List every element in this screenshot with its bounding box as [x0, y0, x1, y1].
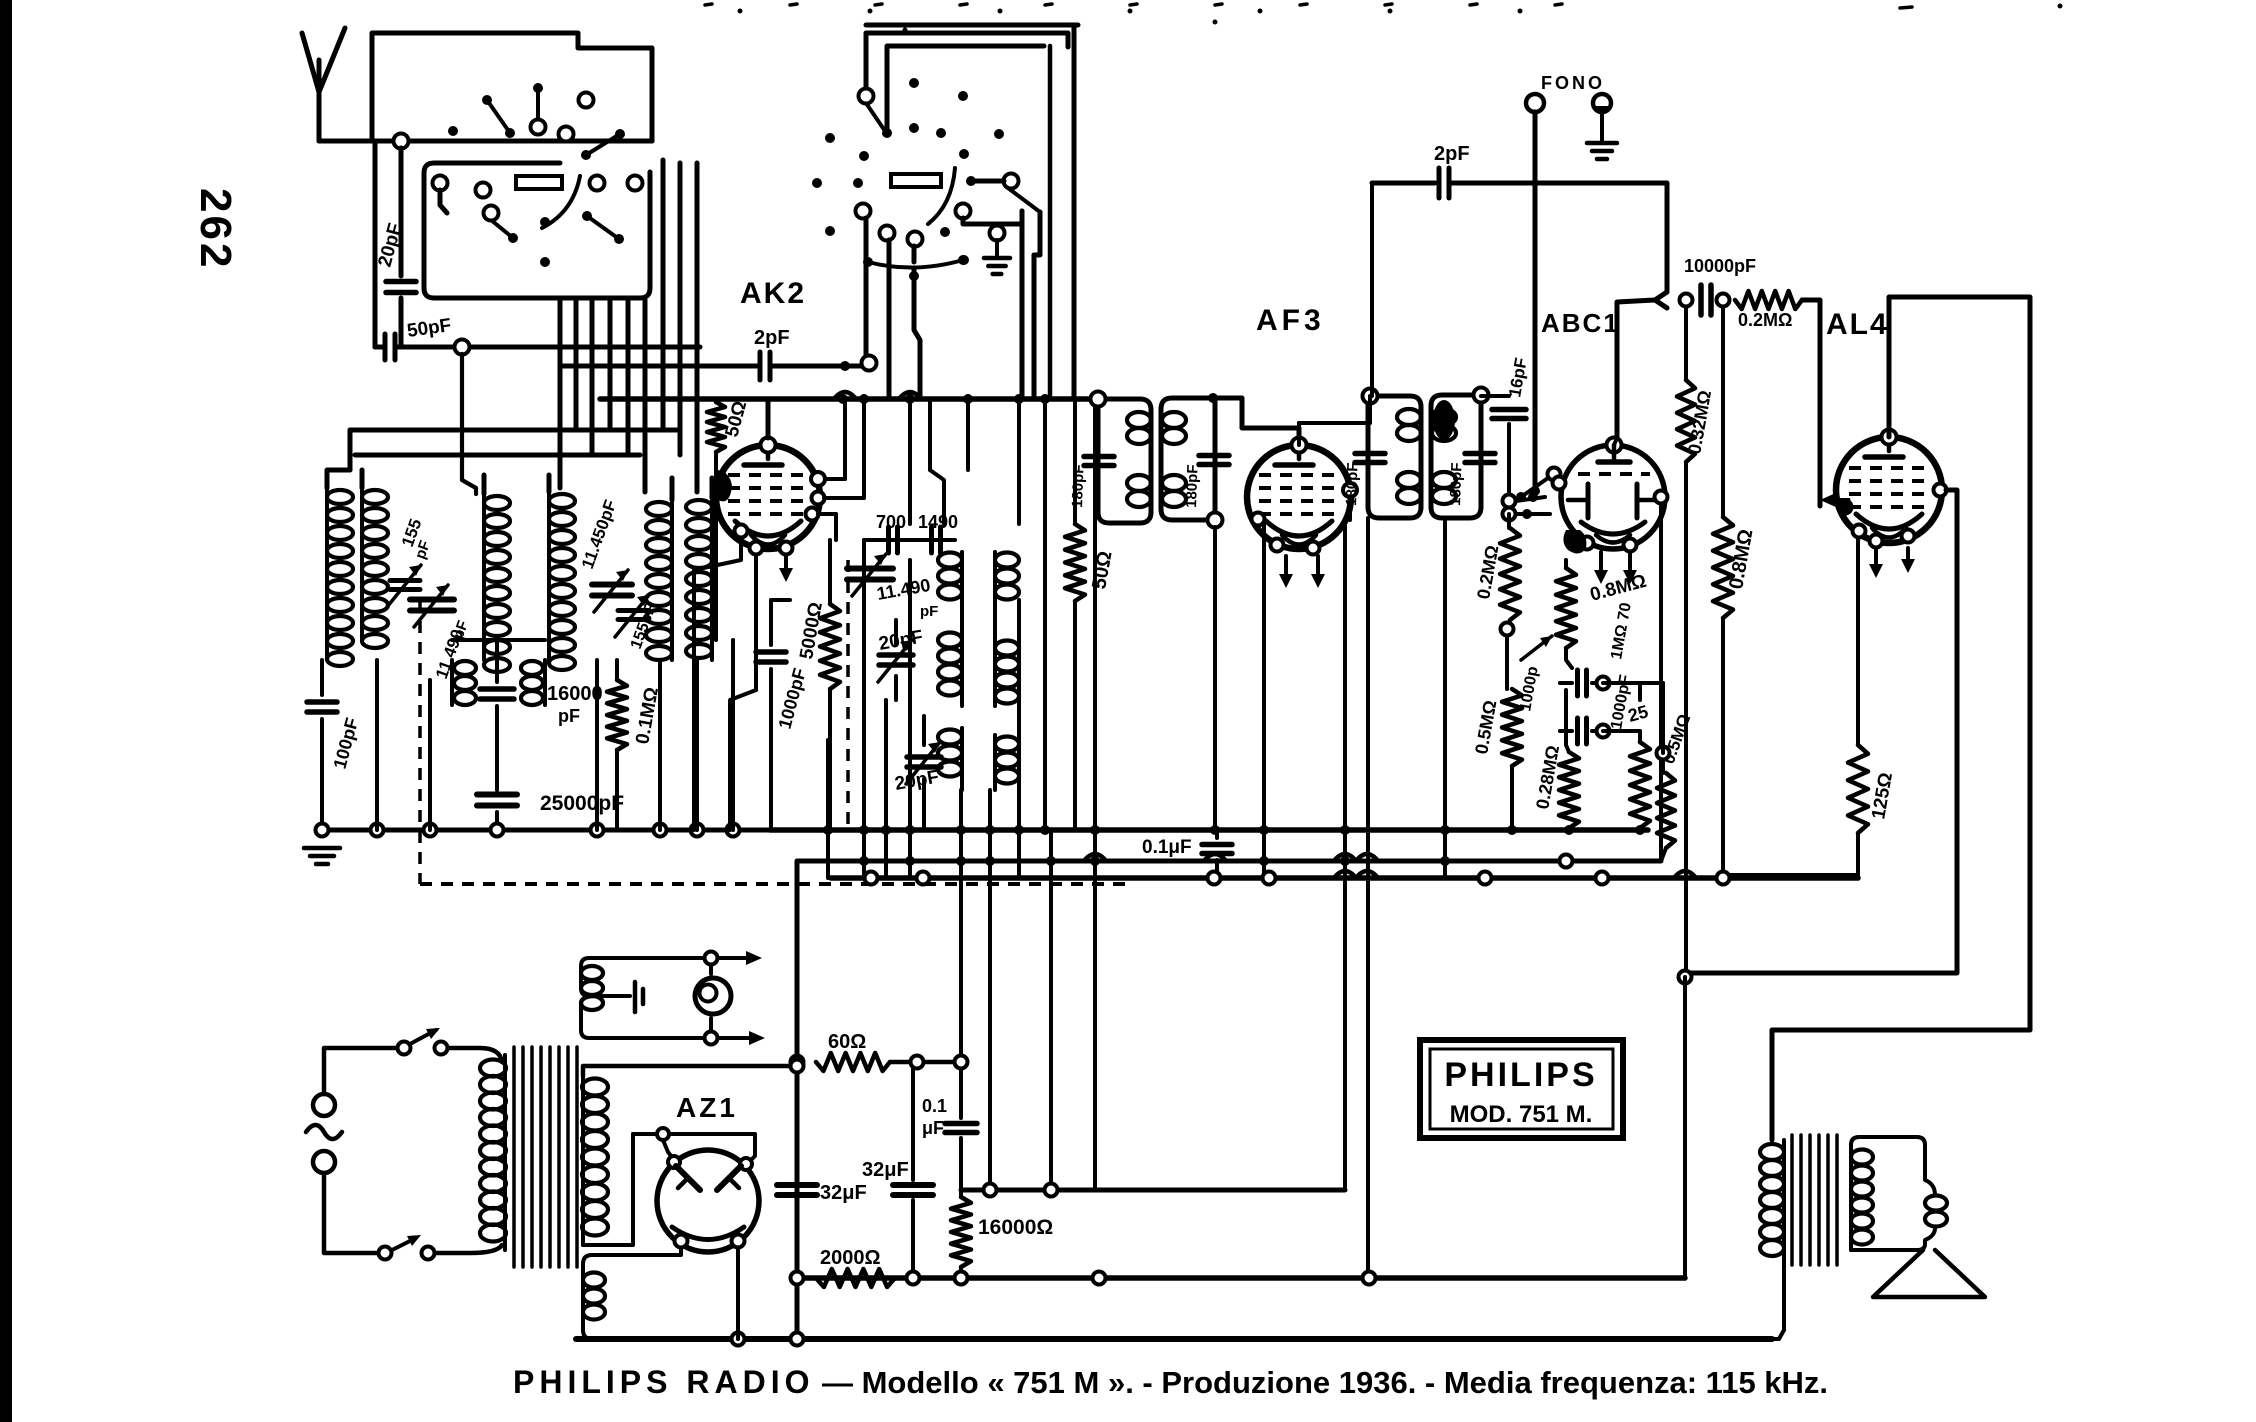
node [1474, 388, 1489, 403]
node AF3 top [1292, 438, 1307, 453]
tube AZ1 [657, 1150, 759, 1252]
ABC1 diode plate L [1586, 484, 1591, 518]
trimmer 20pF a [879, 652, 913, 658]
wire switch comb [590, 300, 595, 455]
node [1440, 825, 1450, 835]
capacitor 1490pF [929, 527, 934, 553]
node [1596, 872, 1609, 885]
wire comb bus g [1017, 600, 1021, 878]
switch contact dot [958, 91, 968, 101]
switch contact dot [966, 176, 976, 186]
switch contact [476, 183, 491, 198]
svg-text:0.8MΩ: 0.8MΩ [1725, 527, 1757, 590]
svg-text:0.2MΩ: 0.2MΩ [1473, 544, 1502, 601]
switch slider [516, 176, 562, 189]
node [956, 825, 966, 835]
capacitor 50pF [383, 334, 388, 360]
wire osc [864, 538, 955, 542]
wire mid verticals [966, 399, 970, 470]
node [732, 1235, 745, 1248]
wire mid vertical4 [1093, 399, 1097, 878]
svg-text:16pF: 16pF [1505, 356, 1531, 398]
dial box inner [887, 46, 1044, 132]
node [1679, 971, 1692, 984]
node [1259, 825, 1269, 835]
heater winding [592, 1248, 681, 1255]
wire [1772, 1330, 1784, 1339]
wire AF3 cath [1262, 525, 1266, 878]
speaker cone [1873, 1250, 1985, 1297]
IFT2 coil left [1397, 409, 1421, 425]
svg-text:0.1μF: 0.1μF [1142, 837, 1192, 858]
ground small [995, 240, 999, 258]
switch contact [856, 204, 871, 219]
switch contact dot [959, 149, 969, 159]
node [1597, 677, 1610, 690]
capacitor 16000pF [495, 640, 499, 682]
svg-text:180pF: 180pF [1343, 462, 1362, 506]
node [1597, 725, 1610, 738]
wire left power vert [795, 861, 800, 1339]
svg-text:16000: 16000 [547, 683, 603, 705]
coil osc3a [960, 728, 964, 790]
bus B2 y861 [798, 859, 1661, 864]
svg-text:20pF: 20pF [877, 627, 924, 655]
mains plug terminal [313, 1094, 335, 1116]
dashed boundary vert [418, 600, 422, 884]
wire AL4 plate loop [1772, 297, 2030, 1140]
wire IFT1 to AF3 [1213, 398, 1299, 438]
resistor 0.5MOhm b [1661, 760, 1665, 773]
node [907, 1272, 920, 1285]
node [1046, 856, 1056, 866]
switch contact dot [909, 78, 919, 88]
node antenna junction [394, 134, 409, 149]
variable capacitor 11.490pF osc [847, 566, 893, 572]
mains plug terminal b [313, 1151, 335, 1173]
wire cluster-down c [912, 246, 917, 262]
node [654, 824, 667, 837]
node [591, 824, 604, 837]
svg-text:125Ω: 125Ω [1868, 771, 1897, 821]
wire [375, 660, 379, 830]
bus y1278 [797, 1275, 1685, 1281]
wire [960, 608, 964, 630]
wire [452, 638, 545, 642]
capacitor 10000pF [1698, 285, 1704, 315]
dial wiper arc [928, 168, 955, 224]
node [985, 856, 995, 866]
svg-text:AK2: AK2 [740, 277, 806, 310]
wire 50pF line [396, 345, 700, 350]
wire [1603, 681, 1663, 685]
pilot arrow bottom [718, 1036, 755, 1040]
node [691, 824, 704, 837]
wire [462, 354, 476, 494]
node [1503, 508, 1516, 521]
wire [771, 598, 790, 602]
wire [495, 760, 499, 790]
coil osc2a [960, 630, 964, 706]
switch contact [590, 176, 605, 191]
node AK2 pin [735, 525, 748, 538]
wire switch comb [643, 300, 648, 492]
node [1014, 394, 1024, 404]
scan blob AK2 left edge [714, 470, 732, 501]
node [1208, 872, 1221, 885]
wire IFT2 tops [1297, 423, 1301, 445]
trimmer capacitor 155pF [390, 578, 420, 583]
wire comb bus b [862, 540, 866, 878]
switch box B outline [424, 163, 650, 298]
svg-text:AF3: AF3 [1256, 304, 1325, 337]
wire switch comb [558, 300, 563, 488]
pilot box [581, 958, 711, 996]
wire AL4 screen [1685, 490, 1957, 973]
node [838, 394, 848, 404]
svg-text:700: 700 [876, 512, 906, 532]
wire mains top [324, 1048, 398, 1094]
node [740, 1158, 752, 1170]
node AK2 g2 [812, 492, 825, 505]
variable capacitor 11.490pF [410, 597, 454, 603]
node [1014, 825, 1024, 835]
svg-text:10000pF: 10000pF [1684, 256, 1756, 276]
PHILIPS model box [1420, 1040, 1623, 1138]
svg-text:262: 262 [191, 188, 240, 270]
switch contact dot [853, 178, 863, 188]
node AK2 pin [780, 542, 793, 555]
scan blob AL4 left [1837, 498, 1852, 516]
switch wire [440, 190, 447, 213]
node [1680, 294, 1693, 307]
node [1091, 392, 1106, 407]
node [455, 340, 470, 355]
switch lever [866, 103, 885, 131]
grid arrow AL4 [1820, 492, 1838, 508]
IFT1 coil left [1127, 412, 1151, 428]
IFT2 left box [1368, 396, 1421, 518]
svg-text:1000pF: 1000pF [775, 666, 810, 731]
wire AZ1 plate left [633, 1132, 657, 1136]
bus main top y399 [600, 396, 1098, 402]
capacitor 2pF [758, 352, 763, 380]
node [1528, 492, 1538, 502]
wire fono gnd [1600, 112, 1604, 141]
IFT1 coil right [1162, 412, 1186, 428]
trimmer arrow [1521, 636, 1552, 660]
node ABC1 left pin2 [1553, 477, 1566, 490]
svg-text:2pF: 2pF [754, 327, 790, 349]
svg-text:MOD. 751 M.: MOD. 751 M. [1450, 1101, 1593, 1128]
svg-text:180pF: 180pF [1069, 464, 1088, 508]
wire comb bus f [988, 790, 992, 1190]
wire switch comb [574, 300, 579, 430]
wire AK2 plate right [825, 477, 845, 481]
resistor 0.2MOhm b [1507, 514, 1511, 528]
wire AL4 cath [1856, 538, 1860, 745]
wire y1190 [961, 1188, 1345, 1193]
switch contact dot [909, 271, 919, 281]
svg-text:0.1: 0.1 [922, 1096, 947, 1116]
IFT2 coil right [1432, 409, 1456, 425]
node [1045, 1184, 1058, 1197]
capacitor 0.1uF bus [1215, 830, 1219, 838]
wire AL4 grid wire [1802, 300, 1820, 506]
capacitor 32uF right [911, 1069, 915, 1180]
wire [1603, 729, 1640, 733]
node [1717, 294, 1730, 307]
capacitor 180pF d [1465, 451, 1495, 457]
svg-text:μF: μF [922, 1118, 944, 1138]
page left black margin bar [0, 0, 12, 1422]
wire 2pF left vert [1370, 183, 1374, 396]
node AF3 pin [1271, 539, 1284, 552]
svg-text:60Ω: 60Ω [828, 1031, 866, 1053]
capacitor coupling b [1560, 729, 1572, 733]
node [963, 394, 973, 404]
switch lever S2 [536, 88, 540, 118]
node [1363, 1272, 1376, 1285]
wire AZ1 cath down [736, 1248, 740, 1339]
wire pilot lamp leads [709, 965, 713, 974]
ABC1 diode plate R [1635, 484, 1640, 518]
wire osc vertical [908, 399, 912, 524]
wire IFT2 right down [1443, 518, 1447, 878]
bus bottom y1339 [576, 1336, 1772, 1342]
node [985, 825, 995, 835]
capacitor 100pF [320, 660, 324, 695]
node AF3 pin [1307, 542, 1320, 555]
tube AF3 [1247, 445, 1351, 549]
wire [1505, 636, 1509, 689]
wire AK2 pin down [754, 555, 758, 690]
coil osc2b [993, 640, 997, 706]
wire 2pF top line [1372, 181, 1435, 186]
capacitor 16pF [1481, 394, 1509, 398]
wire [348, 430, 353, 470]
node [705, 1032, 718, 1045]
wire osc links [894, 620, 898, 644]
output primary [1782, 1140, 1786, 1330]
node [1093, 1272, 1106, 1285]
node [791, 1060, 804, 1073]
switch contact [559, 127, 574, 142]
wire junction bend [1655, 292, 1667, 308]
switch contact dot [909, 123, 919, 133]
wire comb bus d [908, 560, 912, 878]
resistor 0.32MOhm [1684, 307, 1688, 380]
switch contact [990, 226, 1005, 241]
wire [558, 300, 562, 366]
switch contact dot [448, 126, 458, 136]
svg-text:1MΩ 70: 1MΩ 70 [1608, 601, 1635, 660]
cathode arrow AL4 a [1874, 548, 1878, 570]
wire secondary bottom [583, 1134, 633, 1245]
switch wiper arc [542, 176, 580, 228]
node AF3 pin [1252, 513, 1265, 526]
node AL4 pin [1870, 535, 1883, 548]
node [1479, 872, 1492, 885]
svg-text:0.2MΩ: 0.2MΩ [1738, 310, 1792, 330]
bus B3 y878 [831, 875, 1858, 881]
wire fono right run [1535, 183, 1667, 292]
transformer secondary coil [581, 1076, 585, 1245]
switch contact dot [994, 129, 1004, 139]
switch contact [908, 232, 923, 247]
coil L4 [547, 492, 551, 660]
resistor 125 Ohm [1848, 745, 1868, 833]
terminal FONO left [1526, 94, 1544, 112]
node [1259, 856, 1269, 866]
dashed boundary line [420, 882, 1130, 886]
resistor 0.28MOhm [1564, 690, 1568, 745]
IFT1 right box [1161, 398, 1215, 520]
capacitor 1000pF osc [769, 600, 773, 645]
switch contact dot [859, 151, 869, 161]
node [727, 824, 740, 837]
svg-text:100pF: 100pF [330, 716, 363, 771]
node AL4 plate pin [1934, 484, 1947, 497]
node [955, 1272, 968, 1285]
wire [963, 211, 1022, 224]
node AK2 pin [750, 542, 763, 555]
output secondary [1849, 1145, 1853, 1250]
coil L6 [710, 498, 714, 660]
wire AK2 left [694, 538, 741, 830]
trimmer 20pF b [907, 754, 941, 760]
node [905, 856, 915, 866]
wire [1034, 212, 1040, 255]
ABC1 grid dash [1578, 472, 1650, 476]
node [859, 394, 869, 404]
svg-text:2000Ω: 2000Ω [820, 1247, 881, 1269]
svg-text:pF: pF [558, 706, 580, 726]
switch contact dot [940, 227, 950, 237]
wire [399, 148, 404, 276]
switch contact [628, 176, 643, 191]
scan blob ABC1 lower left [1563, 530, 1586, 554]
wire antenna to switch box [319, 139, 652, 144]
node [1560, 855, 1573, 868]
wire [448, 1048, 502, 1062]
resistor 0.5MOhm a [1502, 689, 1522, 766]
wire cluster-down a [864, 218, 869, 366]
node [1657, 747, 1670, 760]
bus B1 y830 [770, 827, 1648, 833]
node [1210, 825, 1220, 835]
svg-text:50Ω: 50Ω [722, 399, 752, 440]
node [491, 824, 504, 837]
cathode arrow ABC1 a [1599, 552, 1603, 576]
node [1507, 825, 1517, 835]
node [791, 1056, 804, 1069]
wire IFT2 left down [1366, 518, 1370, 1278]
svg-text:32μF: 32μF [862, 1159, 909, 1181]
wire AK2 topcap [766, 399, 771, 438]
wire [435, 1245, 502, 1253]
svg-text:FONO: FONO [1541, 73, 1605, 93]
node AL4 pin [1902, 530, 1915, 543]
switch lever S5 [587, 216, 619, 239]
resistor 0.1MOhm [615, 660, 619, 680]
resistor 5000 Ohm [828, 540, 832, 604]
svg-text:PHILIPS: PHILIPS [1444, 1056, 1597, 1094]
switch box A outline [372, 33, 652, 141]
svg-text:25: 25 [1626, 701, 1651, 726]
scan blob IFT2 top [1433, 400, 1455, 440]
wire [971, 179, 1004, 184]
coil osc1a [960, 552, 964, 608]
coil L1 [325, 488, 329, 660]
wire B plus vert [1683, 977, 1687, 1278]
svg-text:pF: pF [920, 603, 938, 620]
cathode arrow AK2 [784, 555, 788, 574]
svg-text:— Modello « 751 M ». - Prod: — Modello « 751 M ». - Produzione 1936. … [822, 1365, 1828, 1400]
wire AL4 cath bus [1723, 833, 1858, 875]
switch lever S1 [487, 100, 510, 133]
cathode arrow AF3 b [1316, 556, 1320, 580]
svg-text:1000p: 1000p [1517, 665, 1542, 713]
resistor 50 Ohm b [1073, 399, 1077, 524]
ABC1 anode bar [1598, 459, 1630, 465]
switch lever S4 [491, 220, 513, 238]
wire cluster-down d [914, 268, 920, 399]
node ABC1 right pin [1655, 491, 1668, 504]
wire [890, 1060, 961, 1065]
dial slider [891, 174, 941, 187]
node AL4 top cap [1882, 430, 1897, 445]
node [675, 1235, 688, 1248]
capacitor 25000pF [477, 792, 517, 798]
node [1090, 856, 1100, 866]
AZ1 cathode arc [672, 1227, 744, 1240]
coil L3 [482, 494, 486, 660]
tube ABC1 [1561, 445, 1665, 549]
switch mains top [398, 1042, 411, 1055]
node [1635, 825, 1645, 835]
node [905, 394, 915, 404]
coil L5 [670, 500, 674, 660]
wire switch comb [608, 300, 613, 430]
transformer core [512, 1047, 516, 1267]
capacitor coupling a [1560, 681, 1572, 685]
svg-text:50pF: 50pF [406, 315, 453, 342]
coil L8 [543, 660, 547, 705]
node [1340, 825, 1350, 835]
node [668, 1156, 680, 1168]
resistor 1MOhm [1638, 731, 1642, 742]
svg-text:PHILIPS RADIO: PHILIPS RADIO [513, 1364, 814, 1400]
switch contact [956, 204, 971, 219]
capacitor 180pF b [1199, 453, 1229, 459]
svg-text:11.450pF: 11.450pF [578, 497, 620, 571]
switch contact dot [936, 128, 946, 138]
wire 2pF line [560, 364, 760, 369]
node [1363, 389, 1378, 404]
node AK2 top cap [761, 438, 776, 453]
wire switch comb [626, 300, 631, 455]
node [705, 952, 718, 965]
resistor 0.8MOhm right [1721, 307, 1725, 517]
node [1522, 509, 1532, 519]
svg-text:20pF: 20pF [893, 767, 940, 795]
node [435, 1042, 448, 1055]
wire [399, 298, 404, 347]
wire cluster-down b [887, 240, 892, 399]
IFT1 left box [1098, 399, 1151, 523]
node [791, 1272, 804, 1285]
